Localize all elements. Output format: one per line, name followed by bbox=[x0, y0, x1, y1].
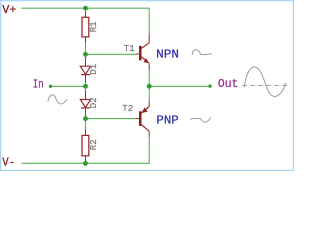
diode D1 bbox=[80, 58, 90, 83]
wire In node to D2 bbox=[85, 86, 87, 91]
junction In node bbox=[83, 84, 88, 89]
svg-text:D2: D2 bbox=[89, 97, 99, 108]
junction Out node bbox=[147, 84, 152, 89]
terminal dot Out bbox=[208, 84, 211, 87]
wire Out stub bbox=[149, 85, 210, 87]
svg-text:T2: T2 bbox=[122, 104, 133, 114]
wire V- rail bbox=[22, 162, 150, 164]
wire T1 emitter to Out node bbox=[148, 70, 150, 86]
svg-text:R1: R1 bbox=[89, 21, 99, 32]
frame border bbox=[1, 1, 294, 171]
annotation sine at NPN bbox=[192, 50, 211, 55]
wire node A to D1 bbox=[85, 54, 87, 58]
wire R1 to bias node A bbox=[85, 43, 87, 55]
transistor T2 bbox=[136, 102, 150, 138]
wire node B to R2 bbox=[85, 119, 87, 130]
junction node B (D2/R2/T2 base) bbox=[83, 116, 88, 121]
wire top right drop to T1 collector bbox=[148, 8, 150, 33]
svg-text:V+: V+ bbox=[2, 3, 16, 17]
junction V+ / R1 bbox=[83, 6, 88, 11]
annotation dashed axis at Out bbox=[242, 84, 289, 86]
svg-text:In: In bbox=[33, 77, 44, 91]
junction node A (R1/D1/T1 base) bbox=[83, 52, 88, 57]
svg-text:T1: T1 bbox=[124, 44, 135, 54]
wire In stub bbox=[51, 85, 86, 87]
wire R2 to V- rail bbox=[85, 162, 87, 164]
svg-text:PNP: PNP bbox=[156, 113, 178, 127]
svg-text:Out: Out bbox=[218, 77, 239, 91]
annotation sine at In bbox=[48, 95, 67, 104]
svg-text:R2: R2 bbox=[89, 139, 99, 150]
wire V+ junction to R1 bbox=[85, 8, 87, 12]
terminal dot In bbox=[49, 85, 52, 88]
annotation sine at PNP bbox=[191, 118, 211, 123]
resistor R2 bbox=[82, 130, 89, 162]
diode D2 bbox=[80, 91, 90, 116]
resistor R1 bbox=[82, 12, 89, 43]
annotation sine at Out bbox=[244, 67, 285, 97]
wire D2 to node B bbox=[85, 115, 87, 119]
wire T2 collector to V- rail bbox=[148, 137, 150, 163]
wire V+ rail bbox=[22, 7, 150, 9]
svg-text:NPN: NPN bbox=[156, 47, 179, 61]
wire node A to T1 base bbox=[86, 53, 136, 55]
svg-text:D1: D1 bbox=[89, 64, 99, 75]
transistor T1 bbox=[136, 34, 150, 71]
wire D1 to In node bbox=[85, 82, 87, 86]
junction R2 / V- bbox=[83, 161, 88, 166]
wire node B to T2 base bbox=[86, 118, 136, 120]
wire Out node to T2 emitter bbox=[148, 86, 150, 101]
svg-text:V-: V- bbox=[2, 156, 15, 170]
